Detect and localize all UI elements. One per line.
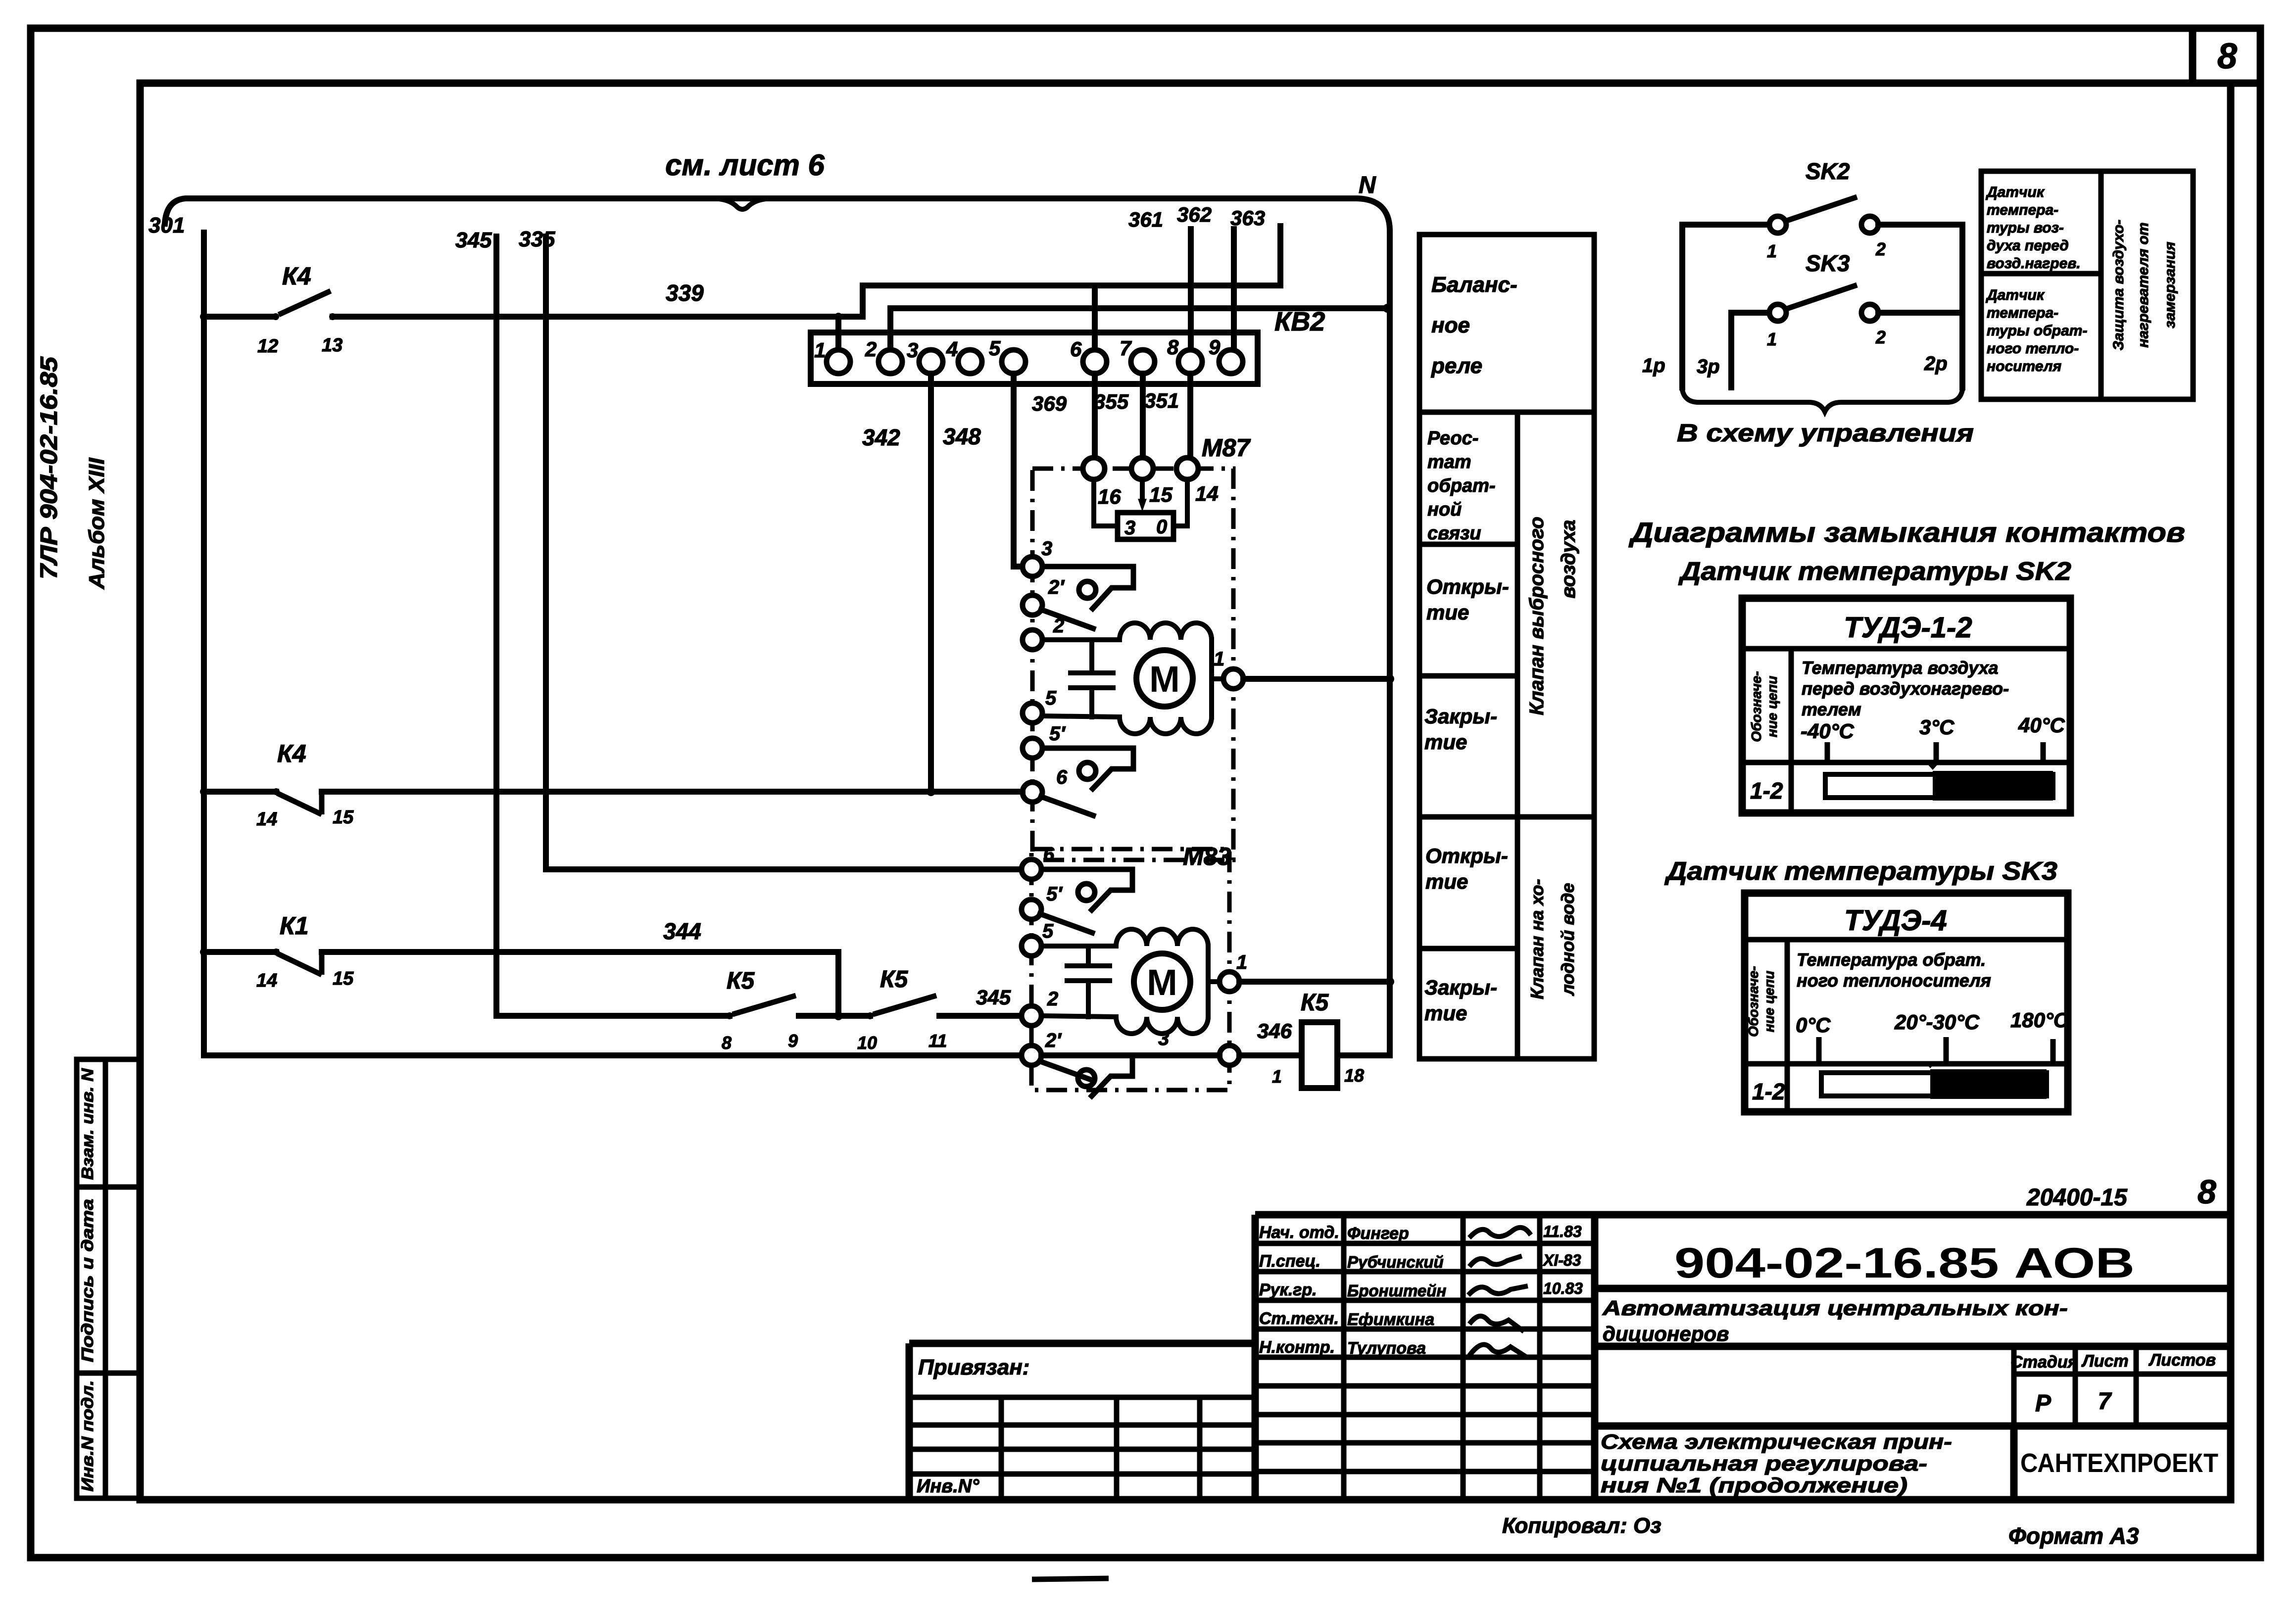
wire 369 stub KB2 t6 to M87 t16 [1092, 374, 1098, 458]
wire t14 to pot [1173, 479, 1187, 526]
title block outer [1255, 1211, 2227, 1219]
svg-text:20400-15: 20400-15 [2026, 1185, 2128, 1211]
M83 terminal 3 [1220, 1045, 1239, 1065]
svg-text:335: 335 [519, 227, 555, 251]
M87 feedback pot box [1118, 513, 1173, 539]
svg-text:Стадия: Стадия [2010, 1353, 2078, 1372]
svg-text:тие: тие [1424, 730, 1467, 754]
svg-text:346: 346 [1257, 1019, 1292, 1043]
svg-text:Нач. отд.: Нач. отд. [1259, 1223, 1339, 1242]
signature scribbles [1471, 1228, 1529, 1236]
svg-text:САНТЕХПРОЕКТ: САНТЕХПРОЕКТ [2020, 1448, 2218, 1478]
svg-text:8: 8 [722, 1033, 732, 1053]
wire M87 t1 to N bus [1243, 676, 1390, 682]
svg-text:3°С: 3°С [1919, 715, 1954, 739]
svg-text:9: 9 [788, 1031, 798, 1051]
wire winding to t1 (M87) [1212, 676, 1223, 681]
svg-text:Закры-: Закры- [1424, 705, 1497, 728]
wire t15 wiper arrow [1140, 479, 1145, 501]
signature table columns [1341, 1215, 1347, 1500]
wire right vertical 2p [1959, 225, 1965, 387]
svg-text:Реос-: Реос- [1427, 428, 1478, 449]
svg-text:7: 7 [2098, 1388, 2112, 1415]
M87 motor winding bottom [1042, 716, 1212, 734]
svg-text:см. лист 6: см. лист 6 [665, 148, 825, 182]
wire 345 into M83 t2 [939, 1013, 1022, 1019]
wire left vertical 1p [1679, 225, 1685, 387]
M87 terminal 16 [1083, 458, 1105, 479]
svg-text:6: 6 [1056, 766, 1068, 788]
svg-text:тие: тие [1424, 1001, 1467, 1025]
svg-text:Лист: Лист [2081, 1352, 2128, 1371]
svg-text:904-02-16.85 АОВ: 904-02-16.85 АОВ [1674, 1239, 2135, 1287]
svg-text:Обозначе-: Обозначе- [1749, 671, 1764, 742]
svg-text:Рубчинский: Рубчинский [1347, 1253, 1444, 1271]
svg-text:180°С: 180°С [2010, 1008, 2069, 1032]
svg-text:Бронштейн: Бронштейн [1347, 1282, 1446, 1300]
svg-text:Ст.техн.: Ст.техн. [1259, 1309, 1339, 1328]
svg-text:туры обрат-: туры обрат- [1987, 323, 2087, 339]
svg-text:2: 2 [1875, 239, 1886, 259]
svg-text:355: 355 [1094, 390, 1129, 413]
svg-text:Листов: Листов [2148, 1351, 2216, 1370]
svg-text:ципиальная регулирова-: ципиальная регулирова- [1601, 1452, 1927, 1475]
svg-text:0: 0 [1156, 516, 1167, 538]
svg-text:5: 5 [1042, 920, 1054, 942]
svg-text:14: 14 [256, 970, 277, 991]
svg-text:Фингер: Фингер [1347, 1224, 1409, 1243]
svg-text:8: 8 [1167, 335, 1179, 359]
svg-text:Схема электрическая прин-: Схема электрическая прин- [1601, 1430, 1952, 1453]
svg-text:345: 345 [455, 228, 492, 252]
project name [1595, 1343, 2227, 1350]
M87 motor winding top [1042, 623, 1212, 640]
svg-text:Копировал: Оз: Копировал: Оз [1502, 1514, 1661, 1538]
svg-text:4: 4 [946, 337, 958, 361]
M83 limit switch lower (t2') [1041, 1055, 1132, 1098]
svg-text:5′: 5′ [1049, 723, 1066, 745]
svg-text:6: 6 [1070, 337, 1082, 361]
wire 345 bus vertical + run to K5 row [496, 237, 730, 1016]
svg-text:М87: М87 [1202, 434, 1251, 462]
svg-text:Диаграммы замыкания контактов: Диаграммы замыкания контактов [1629, 517, 2185, 548]
svg-text:2′: 2′ [1048, 576, 1065, 598]
terminal block KB2 [811, 307, 1325, 384]
inner border frame [140, 83, 2231, 1500]
svg-text:3: 3 [1124, 517, 1135, 539]
svg-text:Закры-: Закры- [1424, 976, 1497, 999]
wire stub KB2 t6 up [1092, 285, 1098, 350]
motor M83 circle [1134, 953, 1190, 1010]
M83 terminal 5' [1022, 900, 1041, 919]
svg-text:Подпись и дата: Подпись и дата [78, 1199, 97, 1362]
svg-text:темпера-: темпера- [1987, 305, 2058, 321]
svg-text:Баланс-: Баланс- [1431, 273, 1517, 297]
svg-text:5: 5 [1045, 687, 1057, 709]
svg-text:16: 16 [1098, 485, 1121, 508]
svg-text:М83: М83 [1183, 843, 1231, 870]
brace под схему управления [1682, 390, 1962, 412]
svg-text:Обозначе-: Обозначе- [1746, 966, 1761, 1037]
svg-text:2: 2 [865, 337, 877, 361]
svg-text:7ЛР 904-02-16.85: 7ЛР 904-02-16.85 [36, 356, 62, 579]
M87 terminal 15 [1131, 458, 1153, 479]
svg-text:диционеров: диционеров [1603, 1322, 1729, 1345]
svg-text:1: 1 [1236, 951, 1247, 973]
wire between K5 contacts [799, 1013, 870, 1019]
M87 dash-dot boundary [1032, 469, 1233, 860]
M87 winding right edge [1209, 640, 1214, 717]
svg-text:13: 13 [322, 335, 342, 356]
svg-text:тие: тие [1426, 601, 1469, 624]
svg-text:К5: К5 [727, 968, 755, 994]
svg-text:344: 344 [663, 918, 701, 944]
svg-text:40°С: 40°С [2018, 713, 2065, 737]
svg-text:Формат А3: Формат А3 [2008, 1523, 2139, 1549]
svg-text:Инв.N подл.: Инв.N подл. [78, 1380, 97, 1492]
svg-text:Датчик: Датчик [1985, 184, 2045, 200]
svg-text:Альбом XIII: Альбом XIII [85, 458, 109, 590]
svg-text:Клапан выбросного: Клапан выбросного [1526, 517, 1548, 715]
M83 terminal 1 [1220, 972, 1239, 992]
table ТУДЭ-4 [1745, 893, 2068, 1112]
svg-text:нагревателя от: нагревателя от [2135, 222, 2151, 347]
svg-text:15: 15 [333, 807, 354, 828]
wire 363 hook [1277, 226, 1283, 285]
wire 335 bus vertical + run to M83 term 6 [546, 237, 1022, 869]
svg-text:1-2: 1-2 [1752, 1079, 1785, 1104]
table ТУДЭ-1-2 [1742, 598, 2070, 813]
M87 left terminals [1023, 557, 1042, 576]
contact SK3 [1731, 250, 1962, 349]
svg-text:связи: связи [1427, 523, 1481, 544]
relay coil K5 [1302, 1022, 1337, 1088]
svg-text:2р: 2р [1924, 353, 1948, 375]
svg-text:12: 12 [257, 336, 278, 357]
M87 terminal 14 [1176, 458, 1198, 479]
legend box (датчики) [1981, 171, 2193, 399]
svg-text:ного теплоносителя: ного теплоносителя [1797, 970, 1991, 991]
svg-text:8: 8 [2198, 1173, 2216, 1211]
svg-text:ние цепи: ние цепи [1764, 676, 1780, 737]
svg-text:Датчик температуры SK3: Датчик температуры SK3 [1664, 857, 2057, 886]
svg-text:Датчик температуры SK2: Датчик температуры SK2 [1678, 557, 2071, 586]
sheet name [1595, 1423, 2227, 1430]
svg-text:M: M [1149, 659, 1180, 700]
svg-text:Откры-: Откры- [1426, 575, 1509, 598]
svg-text:П.спец.: П.спец. [1259, 1252, 1320, 1271]
svg-text:ние цепи: ние цепи [1761, 971, 1777, 1032]
svg-text:2: 2 [1047, 988, 1058, 1010]
svg-text:9: 9 [1209, 335, 1221, 359]
svg-text:362: 362 [1177, 203, 1212, 226]
wire K4 row to M87 t6 [322, 789, 1023, 795]
svg-text:В схему управления: В схему управления [1677, 419, 1974, 447]
svg-text:носителя: носителя [1987, 358, 2061, 375]
wire jog up from 339 to upper run [863, 285, 1280, 317]
svg-text:ной: ной [1427, 499, 1462, 520]
svg-text:20°-30°С: 20°-30°С [1894, 1010, 1980, 1034]
svg-text:5′: 5′ [1046, 883, 1063, 905]
M83 dash-dot boundary [1031, 849, 1229, 1090]
svg-text:15: 15 [1149, 483, 1172, 506]
svg-text:Взам. инв. N: Взам. инв. N [78, 1068, 97, 1180]
svg-text:15: 15 [333, 968, 354, 989]
wire coil K5 to N bus [1337, 982, 1390, 1055]
wire 339 stub down into KB2 terminal 1 [835, 317, 841, 350]
contact K5 (10-11) [857, 966, 947, 1053]
svg-text:3: 3 [1041, 538, 1052, 560]
wire M83 t2p to t3 [1041, 1052, 1220, 1058]
brace mark on top bus [713, 198, 772, 209]
svg-text:Ефимкина: Ефимкина [1347, 1310, 1434, 1329]
svg-text:возд.нагрев.: возд.нагрев. [1987, 255, 2081, 272]
svg-text:7: 7 [1120, 336, 1132, 360]
wire t16 to pot [1094, 479, 1118, 526]
capacitor C (M83) [1067, 946, 1110, 1017]
svg-text:обрат-: обрат- [1427, 475, 1496, 496]
svg-text:SK2: SK2 [1806, 158, 1850, 184]
contact SK2 [1682, 158, 1962, 261]
svg-text:-40°С: -40°С [1801, 719, 1854, 743]
svg-text:тие: тие [1425, 870, 1468, 893]
svg-text:301: 301 [148, 213, 185, 237]
svg-text:1: 1 [1767, 329, 1777, 349]
svg-text:363: 363 [1230, 206, 1265, 230]
M83 winding right edge [1206, 946, 1211, 1017]
svg-text:К5: К5 [1301, 990, 1329, 1016]
svg-text:3: 3 [907, 338, 918, 362]
wire 3p vertical [1728, 313, 1734, 387]
svg-text:Тулупова: Тулупова [1347, 1339, 1426, 1358]
svg-text:Температура воздуха: Температура воздуха [1802, 658, 1998, 678]
svg-text:перед воздухонагрево-: перед воздухонагрево- [1802, 678, 2009, 699]
M87 limit switch upper (t3/t2') [1042, 567, 1133, 611]
svg-text:лодной воде: лодной воде [1558, 883, 1578, 996]
svg-text:3р: 3р [1697, 356, 1720, 378]
svg-text:1: 1 [1214, 648, 1224, 670]
организация САНТЕХПРОЕКТ [2010, 1426, 2018, 1500]
contact K1 (14-15) [200, 912, 354, 991]
svg-text:1р: 1р [1642, 355, 1665, 377]
svg-text:2′: 2′ [1045, 1030, 1062, 1051]
svg-text:342: 342 [862, 425, 900, 450]
svg-text:345: 345 [976, 986, 1011, 1009]
wire 339 [333, 314, 863, 320]
contact bar SK3 [1821, 1073, 2047, 1096]
svg-text:К4: К4 [277, 740, 306, 767]
svg-text:К1: К1 [280, 912, 309, 940]
contact K4 (14-15) [200, 740, 354, 830]
svg-text:1: 1 [1272, 1066, 1282, 1087]
svg-text:N: N [1359, 172, 1376, 198]
wire 351 stub KB2 t8 to M87 t14 [1187, 374, 1193, 458]
contact bar SK2 [1825, 774, 2053, 798]
wire 348 from KB2 t5 down to M87 t3 [1014, 374, 1023, 567]
svg-text:10: 10 [857, 1033, 877, 1053]
svg-text:Автоматизация центральных кон-: Автоматизация центральных кон- [1602, 1296, 2068, 1320]
svg-text:1: 1 [814, 338, 826, 362]
стадия лист листов header [2010, 1346, 2227, 1426]
svg-text:ТУДЭ-4: ТУДЭ-4 [1844, 904, 1947, 937]
M83 terminal 2 [1022, 1006, 1041, 1026]
wire 361 into KB2 t9 [1231, 229, 1237, 350]
svg-text:2: 2 [1875, 327, 1886, 347]
svg-text:6: 6 [1043, 844, 1055, 865]
M83 terminal 5 [1022, 936, 1041, 956]
svg-text:3: 3 [1158, 1028, 1169, 1049]
svg-text:ного тепло-: ного тепло- [1987, 340, 2079, 357]
doc designation 904-02-16.85 АОВ [1595, 1285, 2227, 1292]
contact K5 (8-9) [722, 968, 798, 1053]
svg-text:348: 348 [943, 424, 981, 449]
motor M87 circle [1136, 650, 1193, 707]
svg-text:туры воз-: туры воз- [1987, 220, 2064, 236]
M83 motor winding bottom [1041, 1016, 1208, 1034]
capacitor C (M87) [1071, 640, 1113, 717]
M87 terminal 1 [1223, 669, 1243, 689]
svg-text:Рук.гр.: Рук.гр. [1259, 1281, 1317, 1299]
svg-text:КВ2: КВ2 [1274, 307, 1325, 336]
svg-text:Н.контр.: Н.контр. [1259, 1338, 1335, 1357]
M83 terminal 6 [1022, 859, 1041, 879]
wire M83 t1 to N bus [1239, 979, 1390, 985]
привязан table (left attachment) [909, 1343, 1255, 1500]
svg-text:351: 351 [1144, 389, 1179, 412]
wire from KB2 t2 to N bus [890, 308, 1387, 350]
svg-text:воздуха: воздуха [1558, 520, 1579, 599]
svg-text:14: 14 [1195, 482, 1219, 505]
M87 limit switch lower (t5'/t6) [1042, 748, 1133, 791]
svg-text:1-2: 1-2 [1750, 778, 1783, 804]
svg-text:339: 339 [666, 280, 704, 306]
wire 344 [322, 952, 838, 1016]
svg-text:реле: реле [1431, 354, 1482, 378]
svg-text:11: 11 [928, 1031, 947, 1051]
svg-text:Откры-: Откры- [1425, 844, 1508, 867]
svg-text:369: 369 [1032, 392, 1067, 415]
svg-text:Привязан:: Привязан: [918, 1355, 1029, 1379]
M83 terminal 2' [1022, 1045, 1041, 1065]
svg-text:10.83: 10.83 [1543, 1280, 1583, 1297]
svg-text:M: M [1147, 962, 1177, 1003]
svg-text:14: 14 [256, 809, 277, 830]
wire winding to t1 (M83) [1208, 979, 1220, 984]
wire 346 from M83 t3 to relay coil K5 [1239, 1052, 1302, 1058]
wire 342 from KB2 t3 down to K4 wire [928, 374, 934, 792]
svg-text:Р: Р [2035, 1390, 2052, 1417]
contact K4 (12-13) [200, 262, 342, 357]
svg-text:8: 8 [2217, 37, 2237, 76]
wire 355 stub KB2 t7 to M87 t15 [1140, 374, 1146, 458]
bottom bus wire to M83 t2' [204, 1052, 1022, 1058]
M83 limit switch upper (t6/t5') [1041, 869, 1132, 912]
svg-text:духа перед: духа перед [1987, 237, 2069, 254]
svg-text:Инв.N°: Инв.N° [917, 1476, 979, 1497]
signature table rows [1255, 1241, 1595, 1246]
svg-text:Датчик: Датчик [1985, 287, 2045, 303]
svg-text:темпера-: темпера- [1987, 202, 2058, 218]
svg-text:361: 361 [1128, 208, 1163, 231]
svg-text:11.83: 11.83 [1543, 1223, 1582, 1240]
svg-text:К5: К5 [880, 966, 909, 993]
svg-text:ное: ное [1431, 313, 1470, 337]
wire 301 bus vertical [201, 233, 207, 1055]
svg-text:ТУДЭ-1-2: ТУДЭ-1-2 [1844, 612, 1972, 644]
svg-text:Температура обрат.: Температура обрат. [1797, 950, 1986, 970]
svg-text:К4: К4 [282, 262, 311, 290]
svg-text:0°С: 0°С [1796, 1013, 1831, 1037]
top bus line (см.лист 6) with N down-bend [165, 198, 1390, 982]
wire 362 into KB2 t8 [1188, 229, 1194, 350]
svg-text:XI-83: XI-83 [1542, 1251, 1581, 1269]
svg-text:телем: телем [1802, 699, 1861, 719]
svg-text:замерзания: замерзания [2162, 241, 2178, 328]
svg-text:18: 18 [1344, 1065, 1364, 1086]
M83 motor winding top [1041, 929, 1208, 946]
svg-text:Клапан на хо-: Клапан на хо- [1527, 879, 1547, 999]
svg-text:ния №1 (продолжение): ния №1 (продолжение) [1601, 1473, 1907, 1497]
page number box top right [2193, 28, 2260, 83]
stray mark bottom center [1032, 1578, 1109, 1579]
svg-text:1: 1 [1767, 241, 1777, 261]
svg-text:тат: тат [1427, 452, 1471, 473]
svg-text:5: 5 [989, 336, 1001, 360]
svg-text:SK3: SK3 [1806, 250, 1850, 276]
left sidebar table [77, 1059, 140, 1498]
svg-text:Защита воздухо-: Защита воздухо- [2110, 220, 2127, 351]
